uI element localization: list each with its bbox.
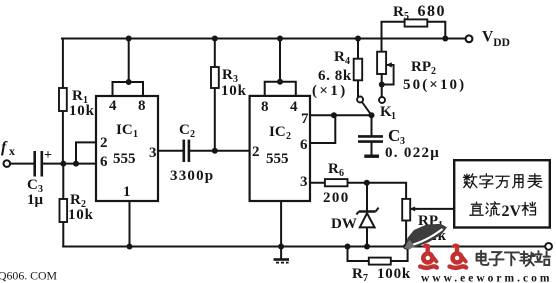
resistor R5 body bbox=[405, 19, 428, 26]
wire R2 bottom to ground rail bbox=[62, 222, 64, 247]
svg-text:1: 1 bbox=[391, 111, 396, 122]
label C3 timing value bbox=[385, 126, 440, 161]
wire C3 right plate to IC1 pin6 bbox=[42, 163, 96, 165]
terminal fx bbox=[4, 160, 11, 167]
node RP2 wiper bottom bbox=[379, 82, 385, 88]
svg-text:2: 2 bbox=[252, 144, 260, 160]
potentiometer RP2 body bbox=[377, 52, 386, 74]
wire IC2 pin8-pin4 bridge bbox=[265, 82, 296, 96]
node K1 C3 bbox=[369, 112, 375, 118]
svg-text:2: 2 bbox=[190, 129, 195, 140]
label K1 bbox=[380, 104, 396, 122]
terminal VDD bbox=[466, 35, 473, 42]
svg-text:DD: DD bbox=[493, 37, 510, 49]
svg-text:680: 680 bbox=[418, 3, 447, 20]
svg-text:8: 8 bbox=[261, 99, 269, 115]
wire R6 right to RP1 top bbox=[348, 183, 407, 199]
svg-text:2: 2 bbox=[286, 131, 291, 142]
node ground IC2 pin1 bbox=[278, 244, 284, 250]
resistor R6 body bbox=[325, 179, 348, 186]
svg-text:R: R bbox=[222, 67, 233, 83]
wire RP2 top to R5 left bbox=[382, 22, 405, 52]
svg-text:4: 4 bbox=[345, 56, 350, 67]
node top rail / IC2 bridge bbox=[277, 36, 283, 42]
svg-text:R: R bbox=[70, 192, 81, 208]
node ground DW bbox=[364, 244, 370, 250]
wire RP2 bottom to K1 contact bbox=[381, 74, 383, 97]
svg-text:RP: RP bbox=[411, 59, 431, 75]
resistor R2 body bbox=[60, 199, 68, 222]
svg-text:50(×10): 50(×10) bbox=[403, 77, 466, 93]
wire R5 right to VDD rail bbox=[427, 22, 445, 39]
svg-text:10k: 10k bbox=[69, 103, 95, 119]
wire R1 bottom to input node bbox=[62, 111, 64, 164]
svg-text:1: 1 bbox=[123, 184, 131, 200]
wire IC1 pin4-pin8 bridge bbox=[113, 82, 144, 96]
node input R1 R2 bbox=[60, 161, 66, 167]
wire node to R2 top bbox=[62, 164, 64, 199]
label multimeter text line1 bbox=[463, 174, 541, 188]
svg-text:(×1): (×1) bbox=[312, 83, 348, 99]
svg-text:6: 6 bbox=[300, 137, 308, 153]
svg-text:R: R bbox=[328, 161, 339, 177]
node top rail / R4 bbox=[355, 36, 361, 42]
wire RP1 wiper to meter bbox=[410, 208, 455, 210]
wire C3 bottom to ground bar bbox=[371, 143, 373, 155]
wire top VDD rail bbox=[62, 38, 465, 40]
svg-text:+: + bbox=[44, 148, 52, 163]
RP2 wiper bbox=[383, 62, 394, 84]
multimeter box bbox=[454, 160, 550, 227]
wire IC2 bridge to top rail bbox=[279, 39, 281, 82]
wire IC1 pin3 to C2 bbox=[158, 150, 183, 152]
IC1 box U1 bbox=[96, 96, 158, 201]
svg-text:x: x bbox=[9, 144, 15, 158]
svg-text:6: 6 bbox=[339, 168, 344, 179]
svg-text:100k: 100k bbox=[377, 266, 411, 282]
label R7 value bbox=[352, 266, 411, 283]
svg-text:200: 200 bbox=[323, 190, 350, 206]
label VDD bbox=[482, 29, 510, 50]
potentiometer RP1 body bbox=[402, 199, 410, 221]
wire IC2 pin6 loop to pin7 bbox=[310, 115, 335, 143]
ground symbol under IC2 pin1 bbox=[274, 260, 290, 263]
wire DW node down bbox=[366, 183, 368, 211]
svg-text:10k: 10k bbox=[68, 207, 94, 223]
terminal bottom right bbox=[545, 243, 552, 250]
ground bar under timing C3 bbox=[364, 154, 379, 157]
resistor R1 body bbox=[59, 88, 67, 111]
resistor R4 body bbox=[354, 59, 363, 81]
watermark red bugs bbox=[420, 245, 466, 268]
svg-text:10k: 10k bbox=[221, 83, 247, 99]
label R4 value bbox=[312, 49, 352, 99]
capacitor C3 timing plates bbox=[358, 136, 383, 141]
wire IC1 pin1 to ground rail bbox=[129, 201, 131, 247]
node pin7 pin6 bbox=[331, 112, 337, 118]
wire R4 bottom to K1 contact bbox=[357, 80, 359, 96]
svg-text:555: 555 bbox=[266, 151, 289, 167]
svg-text:3: 3 bbox=[300, 174, 308, 190]
label IC1 pins bbox=[100, 98, 157, 200]
label C3 input value bbox=[27, 148, 52, 208]
label R6 value bbox=[323, 161, 350, 206]
wire left vertical from top rail to R1 bbox=[62, 39, 64, 89]
node C2 R3 bbox=[212, 148, 218, 154]
wire IC2 pin7 to K1 node bbox=[310, 114, 372, 116]
svg-text:2: 2 bbox=[431, 66, 436, 77]
svg-text:V: V bbox=[482, 29, 494, 46]
node ground R7 left bbox=[345, 244, 351, 250]
capacitor C2 plates bbox=[184, 140, 189, 162]
node top rail / R3 bbox=[212, 36, 218, 42]
svg-text:R: R bbox=[334, 49, 345, 65]
svg-text:4: 4 bbox=[290, 99, 298, 115]
wire K1 node to C3 top bbox=[371, 115, 373, 135]
label R5 value bbox=[393, 3, 446, 22]
svg-text:1μ: 1μ bbox=[27, 192, 44, 208]
svg-text:6. 8k: 6. 8k bbox=[318, 68, 352, 84]
zener diode DW bbox=[356, 208, 378, 228]
svg-text:IC: IC bbox=[116, 122, 133, 138]
node input pin2 bbox=[73, 161, 79, 167]
wire R3 bottom to C2 node bbox=[214, 88, 216, 151]
svg-text:4: 4 bbox=[109, 98, 117, 114]
svg-text:8: 8 bbox=[138, 98, 146, 114]
wire IC1 bridge to top rail bbox=[128, 39, 130, 83]
label RP1 value bbox=[418, 213, 447, 244]
svg-text:C: C bbox=[179, 122, 190, 138]
svg-text:R: R bbox=[72, 88, 83, 104]
svg-text:6: 6 bbox=[100, 154, 108, 170]
node IC2 bridge bbox=[277, 79, 283, 85]
svg-text:DW: DW bbox=[331, 216, 357, 232]
svg-text:2V: 2V bbox=[502, 203, 522, 220]
wire R3 top to rail bbox=[214, 39, 216, 68]
wire bottom ground rail bbox=[63, 246, 545, 248]
label R3 value bbox=[221, 67, 247, 99]
wire R4 top to rail bbox=[357, 39, 359, 59]
svg-text:3: 3 bbox=[149, 145, 157, 161]
label R1 value bbox=[69, 88, 95, 119]
svg-text:C: C bbox=[27, 177, 38, 193]
label multimeter text line2 bbox=[470, 202, 536, 220]
svg-text:IC: IC bbox=[269, 124, 286, 140]
svg-text:R: R bbox=[393, 4, 404, 20]
resistor R3 body bbox=[211, 67, 219, 88]
watermark site name bbox=[477, 251, 550, 266]
svg-text:2: 2 bbox=[100, 135, 108, 151]
switch K1 bbox=[357, 97, 385, 116]
svg-text:C: C bbox=[388, 126, 400, 145]
label C2 value bbox=[170, 122, 214, 184]
wire C2 to IC2 pin2 bbox=[189, 150, 249, 152]
wire fx terminal to C3 left plate bbox=[10, 163, 34, 165]
IC2 box U2 bbox=[250, 96, 310, 201]
watermark brush swoosh bbox=[404, 224, 447, 250]
node IC1 bridge bbox=[126, 79, 132, 85]
node top rail / IC1 bridge bbox=[126, 36, 132, 42]
svg-text:3300p: 3300p bbox=[170, 168, 214, 184]
label fx bbox=[1, 139, 15, 158]
RP1 wiper bbox=[410, 206, 415, 211]
capacitor C3 input plates bbox=[35, 151, 42, 177]
label RP2 value bbox=[403, 59, 466, 93]
svg-text:5: 5 bbox=[404, 11, 409, 22]
node R6 DW bbox=[364, 180, 370, 186]
node ground RP1 bbox=[403, 244, 409, 250]
wire R7 right branch bbox=[391, 247, 408, 262]
resistor R7 body bbox=[369, 258, 391, 265]
wire IC2 pin1 to ground rail bbox=[280, 201, 282, 259]
wire R7 left branch bbox=[348, 247, 369, 262]
wire DW anode to ground rail bbox=[366, 228, 368, 247]
svg-text:7: 7 bbox=[301, 111, 309, 127]
svg-text:1: 1 bbox=[133, 129, 138, 140]
wire IC2 pin3 to R6 bbox=[310, 182, 325, 184]
node top rail / R5 right bbox=[442, 36, 448, 42]
node ground IC1 pin1 bbox=[127, 244, 133, 250]
wire RP1 bottom to ground rail bbox=[405, 221, 407, 247]
wire pin2 branch bbox=[76, 142, 96, 163]
svg-text:www.eeworm.com: www.eeworm.com bbox=[421, 273, 552, 283]
label IC2 pins bbox=[252, 99, 309, 190]
svg-text:Q606. COM: Q606. COM bbox=[0, 269, 58, 283]
label R2 value bbox=[68, 192, 94, 223]
svg-text:7: 7 bbox=[363, 273, 368, 283]
svg-text:0. 022μ: 0. 022μ bbox=[385, 145, 440, 161]
svg-text:R: R bbox=[352, 266, 363, 282]
svg-text:555: 555 bbox=[113, 151, 136, 167]
